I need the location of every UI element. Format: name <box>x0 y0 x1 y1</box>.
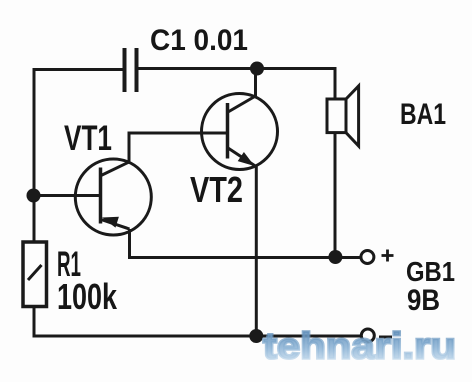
wire VT1 emitter to plus rail <box>130 229 368 258</box>
svg-text:tehnari.ru: tehnari.ru <box>263 326 456 367</box>
transistor VT1 (PNP) <box>75 159 151 235</box>
node junction plus rail (BA1 / VT1 emitter) <box>328 250 342 264</box>
wire top from C1 to speaker corner <box>137 69 336 100</box>
minus sign <box>379 336 392 339</box>
plus sign <box>382 250 394 262</box>
label BA1 <box>400 98 446 131</box>
svg-text:C1 0.01: C1 0.01 <box>150 24 248 57</box>
wire R1 to bottom rail <box>34 307 361 337</box>
speaker BA1 <box>327 86 359 257</box>
node junction bottom (VT2 emitter / minus rail) <box>249 329 263 343</box>
transistor VT2 (NPN) <box>202 94 278 170</box>
svg-text:VT1: VT1 <box>64 119 112 158</box>
svg-text:BA1: BA1 <box>400 98 446 131</box>
svg-text:VT2: VT2 <box>190 169 243 210</box>
value label C1 0.01 <box>150 24 248 57</box>
wire VT1 base from left node <box>34 194 101 197</box>
wire VT1 collector to VT2 base <box>129 133 228 162</box>
label R1 <box>57 245 81 284</box>
capacitor C1 <box>125 48 137 92</box>
label VT2 <box>190 169 243 210</box>
svg-text:GB1: GB1 <box>406 256 455 287</box>
terminal plus (open circle) <box>361 251 374 264</box>
node junction left (VT1 base / R1) <box>27 189 41 203</box>
terminal minus (open circle) <box>361 329 374 342</box>
label VT1 <box>64 119 112 158</box>
resistor R1 <box>23 242 47 307</box>
svg-text:9В: 9В <box>407 284 440 317</box>
value label 100k <box>57 276 118 317</box>
watermark tehnari.ru <box>263 326 456 367</box>
wire VT2 emitter down to bottom node <box>255 167 258 338</box>
wire left vertical and top-left segment to C1 <box>34 70 124 243</box>
node junction top (C1 / VT2 collector / BA1) <box>250 62 264 76</box>
svg-text:100k: 100k <box>57 276 118 317</box>
wire VT2 collector up to top node <box>254 67 257 96</box>
label GB1 <box>406 256 455 287</box>
label 9V <box>407 284 440 317</box>
